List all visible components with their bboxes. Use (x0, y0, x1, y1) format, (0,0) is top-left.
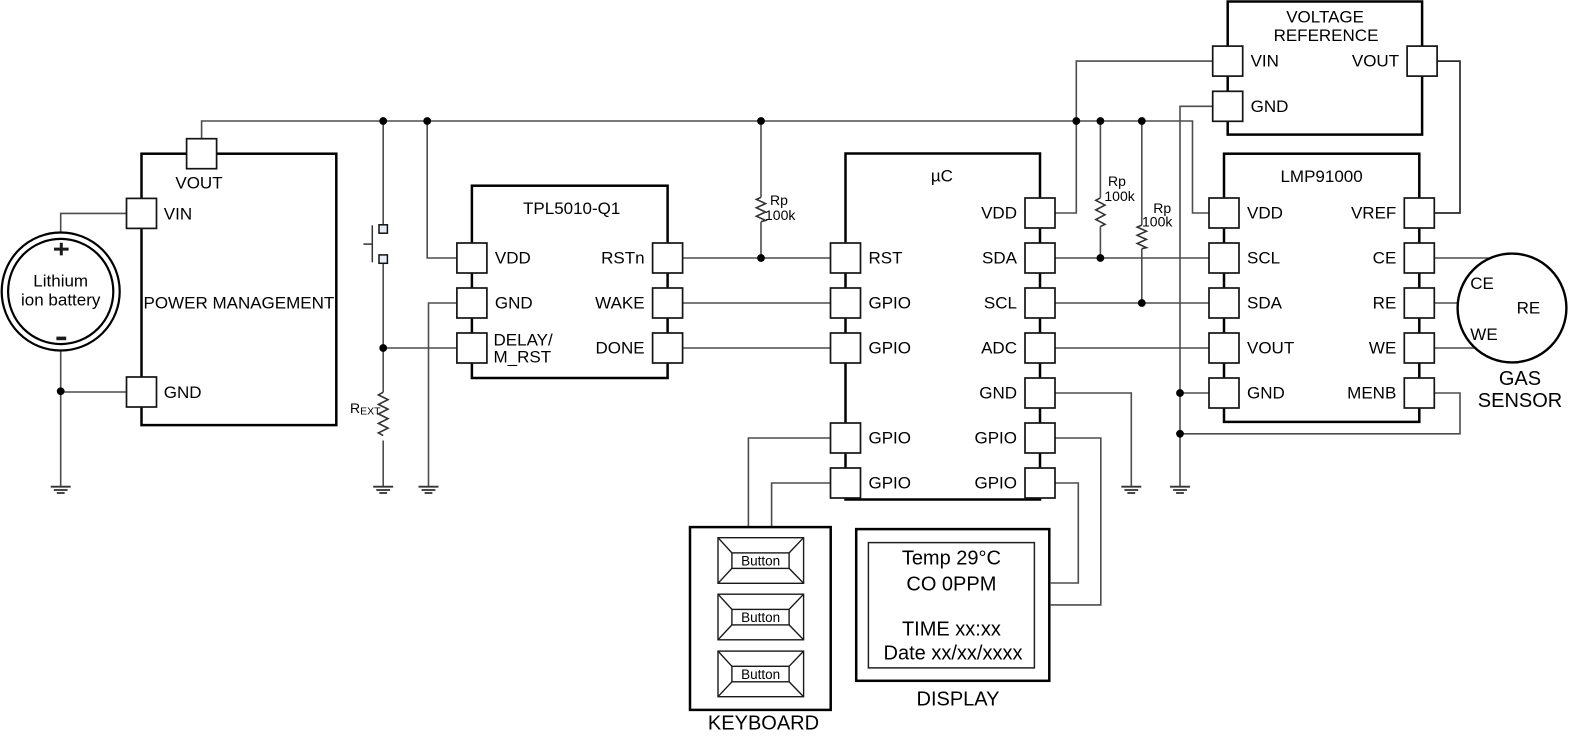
svg-text:Button: Button (741, 554, 780, 569)
svg-text:SENSOR: SENSOR (1478, 390, 1562, 412)
svg-text:POWER MANAGEMENT: POWER MANAGEMENT (144, 294, 335, 313)
svg-text:µC: µC (931, 167, 953, 186)
svg-text:SDA: SDA (1247, 294, 1283, 313)
svg-text:DISPLAY: DISPLAY (917, 689, 1000, 711)
svg-text:M_RST: M_RST (494, 348, 552, 367)
svg-text:ADC: ADC (981, 339, 1017, 358)
svg-text:Button: Button (741, 610, 780, 625)
svg-text:VREF: VREF (1351, 204, 1396, 223)
svg-text:LMP91000: LMP91000 (1280, 167, 1362, 186)
svg-text:GPIO: GPIO (974, 474, 1017, 493)
svg-text:Lithium: Lithium (33, 272, 88, 291)
svg-text:REFERENCE: REFERENCE (1274, 26, 1379, 45)
svg-text:CE: CE (1470, 274, 1494, 293)
svg-text:GPIO: GPIO (869, 339, 912, 358)
svg-text:Rp: Rp (1108, 173, 1126, 189)
svg-text:SCL: SCL (1247, 249, 1280, 268)
svg-text:KEYBOARD: KEYBOARD (708, 713, 819, 735)
svg-text:GND: GND (979, 384, 1017, 403)
svg-text:RE: RE (1373, 294, 1397, 313)
svg-text:RSTn: RSTn (601, 249, 644, 268)
svg-text:TIME xx:xx: TIME xx:xx (902, 619, 1001, 641)
svg-text:RST: RST (869, 249, 903, 268)
svg-text:DONE: DONE (595, 339, 644, 358)
svg-text:GPIO: GPIO (869, 429, 912, 448)
svg-text:GPIO: GPIO (869, 294, 912, 313)
svg-text:100k: 100k (1104, 188, 1135, 204)
svg-text:Button: Button (741, 667, 780, 682)
svg-text:GPIO: GPIO (869, 474, 912, 493)
svg-text:GND: GND (495, 294, 533, 313)
svg-text:GND: GND (1251, 97, 1289, 116)
svg-text:100k: 100k (765, 207, 796, 223)
svg-text:WE: WE (1470, 325, 1497, 344)
svg-text:GAS: GAS (1499, 368, 1541, 390)
svg-text:GND: GND (1247, 384, 1285, 403)
svg-text:ion battery: ion battery (21, 291, 101, 310)
svg-text:VOUT: VOUT (1352, 52, 1399, 71)
svg-text:GND: GND (164, 383, 202, 402)
svg-text:CE: CE (1373, 249, 1397, 268)
svg-text:VDD: VDD (981, 204, 1017, 223)
svg-text:SCL: SCL (984, 294, 1017, 313)
svg-text:VDD: VDD (495, 249, 531, 268)
svg-text:WAKE: WAKE (595, 294, 644, 313)
svg-text:VOLTAGE: VOLTAGE (1286, 7, 1364, 26)
svg-text:GPIO: GPIO (974, 429, 1017, 448)
svg-text:Rp: Rp (770, 192, 788, 208)
svg-text:WE: WE (1369, 339, 1396, 358)
svg-text:Temp 29°C: Temp 29°C (902, 548, 1001, 570)
svg-text:SDA: SDA (982, 249, 1018, 268)
svg-text:VDD: VDD (1247, 204, 1283, 223)
svg-text:RE: RE (1517, 299, 1541, 318)
svg-text:TPL5010-Q1: TPL5010-Q1 (523, 199, 620, 218)
svg-text:VOUT: VOUT (175, 174, 222, 193)
svg-text:VIN: VIN (164, 205, 192, 224)
svg-text:CO 0PPM: CO 0PPM (906, 574, 996, 596)
svg-text:Date xx/xx/xxxx: Date xx/xx/xxxx (884, 643, 1023, 665)
svg-text:VOUT: VOUT (1247, 339, 1294, 358)
svg-text:MENB: MENB (1347, 384, 1396, 403)
svg-text:VIN: VIN (1251, 52, 1279, 71)
svg-text:100k: 100k (1142, 213, 1173, 229)
